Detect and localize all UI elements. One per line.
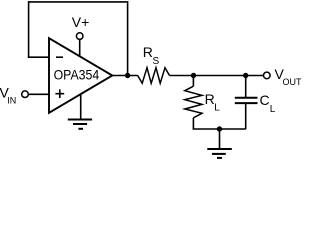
svg-text:V+: V+	[72, 14, 90, 30]
wire feedback top	[29, 1, 128, 3]
op-amp U1 OPA354	[49, 38, 112, 113]
svg-text:R: R	[205, 91, 215, 107]
node CL junction	[243, 73, 248, 78]
V_IN input terminal	[0, 85, 28, 106]
svg-text:R: R	[143, 44, 153, 60]
wire inverting input	[28, 56, 49, 58]
resistor RL	[185, 86, 221, 118]
svg-text:C: C	[260, 92, 270, 108]
wire RS to node	[170, 75, 194, 77]
svg-text:OPA354: OPA354	[54, 67, 100, 83]
wire CL node to VOUT	[246, 75, 264, 77]
wire node to CL node	[194, 75, 246, 77]
V+ supply terminal	[72, 14, 90, 39]
svg-text:OUT: OUT	[283, 77, 303, 87]
ground op-amp	[68, 94, 92, 129]
node RL junction	[191, 73, 196, 78]
wire feedback left vertical	[28, 1, 30, 57]
wire bottom rail	[193, 128, 246, 130]
wire noninverting input	[28, 93, 49, 95]
ground load	[207, 129, 232, 158]
wire RL to rail	[192, 118, 194, 129]
wire output to RS	[111, 75, 137, 77]
resistor RS	[138, 44, 170, 83]
svg-text:L: L	[214, 102, 220, 113]
node ground junction	[217, 126, 222, 131]
svg-text:S: S	[153, 56, 160, 67]
svg-text:L: L	[270, 104, 276, 115]
node output junction	[125, 73, 130, 78]
wire feedback right vertical	[127, 1, 129, 75]
capacitor CL	[235, 76, 276, 130]
wire V+ stem	[79, 39, 81, 56]
wire node to RL	[192, 76, 194, 87]
V_OUT output terminal	[264, 66, 303, 87]
svg-text:IN: IN	[7, 96, 16, 106]
